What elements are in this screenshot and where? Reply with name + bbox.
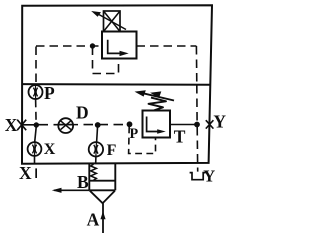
svg-text:A: A [87, 210, 100, 230]
svg-text:B: B [77, 172, 89, 192]
svg-text:X: X [5, 115, 18, 135]
svg-text:F: F [107, 142, 117, 159]
svg-text:P: P [44, 83, 55, 103]
svg-text:T: T [174, 126, 186, 146]
svg-text:Y: Y [213, 112, 226, 132]
svg-text:X: X [19, 163, 32, 183]
svg-text:D: D [76, 103, 89, 123]
svg-text:P: P [130, 126, 139, 142]
svg-text:Y: Y [203, 167, 215, 186]
svg-text:X: X [44, 141, 56, 158]
